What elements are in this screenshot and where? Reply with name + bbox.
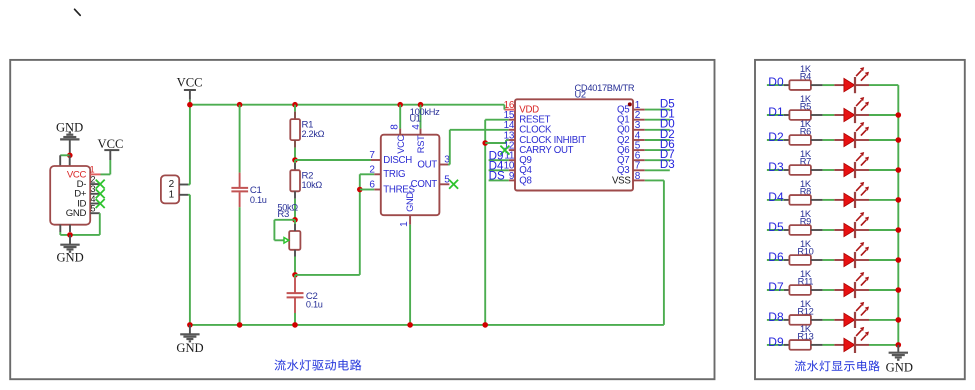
svg-text:D2: D2 [768,130,784,144]
pin 5 stub [90,204,100,214]
wire [294,105,296,119]
pin 7 DISCH stub [371,159,381,161]
wire OUT to CLOCK [448,130,509,165]
net label D5 [767,220,784,234]
pin 1 (VCC) stub [90,165,101,175]
net label D0 (pin 3) [645,118,675,131]
junction dot (USB bottom gnd) [67,232,73,238]
junction dot [896,257,902,263]
junction dot [896,197,902,203]
net label D8 [767,310,784,324]
svg-text:D4: D4 [768,190,784,204]
wire [823,84,835,86]
USB connector J1 [50,166,90,225]
wire R3 wiper loop [274,220,295,243]
wire DISCH net [295,159,371,161]
resistor R13 1K [784,324,823,350]
pin 1 GND stub wire [409,215,411,325]
resistor R9 1K [784,209,823,235]
label 100kHz [410,107,440,117]
junction dot [187,102,193,108]
wire 555 pin4 to rail [420,105,422,135]
wire [823,139,835,141]
net label D9 [767,335,784,349]
title display circuit [795,360,880,371]
svg-text:OUT: OUT [417,159,437,170]
svg-text:VCC: VCC [177,75,203,89]
svg-text:GND: GND [176,341,203,355]
wire [294,257,296,275]
LED D4 row [834,182,869,208]
wire [823,259,835,261]
svg-text:CONT: CONT [411,179,438,190]
svg-text:1: 1 [90,165,95,175]
junction dot [237,322,243,328]
svg-text:4: 4 [411,124,422,130]
junction dot [896,317,902,323]
svg-text:D1: D1 [768,105,784,119]
wire to TRIG/THRES net [295,174,360,275]
junction dot [482,322,488,328]
wire LED common rail [897,85,899,345]
pin 6 THRES stub wire [360,189,381,191]
svg-text:4: 4 [90,194,95,204]
net label D6 [767,250,784,264]
wire [239,207,241,325]
wire [869,169,898,171]
junction dot node DISCH [292,157,298,163]
svg-text:U2: U2 [575,90,586,100]
junction dot [482,140,488,146]
svg-text:GND: GND [66,208,87,219]
resistor R7 1K [784,149,823,175]
resistor R11 1K [784,269,823,295]
net label D7 [767,280,784,294]
wire [869,259,898,261]
ground GND (USB bottom) [56,235,83,265]
junction dot [896,112,902,118]
net label D1 (pin 2) [645,108,675,121]
wire [239,105,241,173]
display circuit frame [755,60,965,379]
svg-text:U1: U1 [410,114,421,124]
net label D3 (pin 7) [645,158,675,171]
capacitor C2 [287,275,323,313]
svg-text:D3: D3 [768,160,784,174]
svg-text:GND: GND [405,192,415,212]
wire pin 5 to gnd [60,213,100,235]
junction dot [418,102,424,108]
junction dot [292,217,298,223]
wire [823,319,835,321]
svg-text:10kΩ: 10kΩ [302,180,323,190]
wire [869,114,898,116]
svg-text:DISCH: DISCH [383,155,412,166]
pin 3 stub no-connect [90,184,105,198]
counter U2 CD4017BM/TR [504,83,645,191]
junction dot [896,227,902,233]
svg-text:3: 3 [90,184,95,194]
resistor R10 1K [784,239,823,265]
svg-text:0.1u: 0.1u [250,195,267,205]
net label DS (pin 9) [489,170,509,183]
junction dot [292,322,298,328]
wire [869,344,898,346]
svg-text:D8: D8 [768,310,784,324]
wire VCC to pin 1 [101,160,111,174]
junction dot [407,322,413,328]
ground GND (main rail) [176,325,203,355]
junction dot [896,167,902,173]
svg-text:GND: GND [56,251,83,265]
junction dot [237,102,243,108]
LED D9 row [834,327,869,353]
wire VCC rail [190,104,505,106]
svg-text:VSS: VSS [612,175,631,186]
LED D7 row [834,272,869,298]
wire [823,114,835,116]
resistor R6 1K [784,119,823,145]
net label D4 (pin 10) [489,160,509,173]
net label D0 [767,75,784,89]
svg-text:8: 8 [390,124,401,130]
junction dot (USB top gnd) [67,153,73,159]
svg-text:R3: R3 [277,209,289,220]
junction dot node THRES [357,187,363,193]
net label D4 [767,190,784,204]
LED D3 row [834,152,869,178]
pin 3 OUT stub [439,164,448,166]
pin 5 CONT no-connect [439,180,458,189]
wire [869,229,898,231]
svg-text:VCC: VCC [98,137,124,151]
net label D3 [767,160,784,174]
wire [869,139,898,141]
wire [294,313,296,325]
svg-text:5: 5 [90,204,95,214]
net label D2 (pin 4) [645,128,675,141]
resistor R5 1K [784,94,823,120]
LED D5 row [834,212,869,238]
net label D1 [767,105,784,119]
LED D8 row [834,302,869,328]
wire [294,140,296,160]
wire [823,169,835,171]
svg-text:D0: D0 [768,75,784,89]
stray backtick mark [75,9,81,15]
pin 4 stub no-connect [90,194,105,208]
wire [823,344,835,346]
pin 2 TRIG stub wire [360,173,381,175]
wire CLOCK INHIBIT net [485,140,509,143]
wire VDD jog from rail [503,105,505,110]
resistor R1 [290,119,324,140]
svg-text:Q8: Q8 [519,175,531,186]
wire [60,155,70,166]
wire RESET net [485,120,509,325]
wire [869,84,898,86]
power VCC (main) [177,75,203,104]
junction dot [397,102,403,108]
net label D7 (pin 6) [645,148,675,161]
pin 12 CARRY OUT no-connect [500,146,509,155]
capacitor C1 [231,173,266,208]
wire [869,289,898,291]
pin 2 stub no-connect [90,175,105,189]
svg-text:2.2kΩ: 2.2kΩ [302,129,325,139]
connector P1 [161,175,188,203]
LED D2 row [834,122,869,148]
power VCC (USB) [98,137,124,160]
LED D1 row [834,97,869,123]
net label D5 (pin 1) [645,98,675,111]
wire [294,160,296,170]
svg-text:D6: D6 [768,250,784,264]
wire [823,229,835,231]
timer U1 [369,114,450,227]
svg-text:D7: D7 [768,280,784,294]
resistor R2 [290,170,322,191]
resistor R4 1K [784,64,823,90]
LED D6 row [834,242,869,268]
svg-text:D3: D3 [660,158,675,171]
wire GND rail [190,324,664,326]
svg-text:1: 1 [169,190,175,201]
wire shell pins to gnd [60,225,70,235]
svg-text:0.1u: 0.1u [306,300,323,310]
junction dot [292,272,298,278]
ground GND (display) [886,345,913,375]
wire [869,319,898,321]
svg-text:VCC: VCC [396,134,406,153]
resistor R12 1K [784,299,823,325]
wire [823,289,835,291]
net label D2 [767,130,784,144]
svg-text:2: 2 [90,175,95,185]
svg-text:GND: GND [886,360,913,374]
svg-text:D5: D5 [768,220,784,234]
ground GND (USB top) [56,121,83,156]
LED D0 row [834,67,869,93]
wire VSS to gnd rail [645,180,664,325]
potentiometer R3 [277,203,300,257]
junction dot [292,102,298,108]
svg-text:RST: RST [416,135,426,153]
wire P1 pin1 to GND rail [188,195,190,325]
wire [823,199,835,201]
svg-text:TRIG: TRIG [383,169,405,180]
wire [294,191,296,220]
svg-text:DS: DS [489,170,505,183]
junction dot [187,322,193,328]
driver circuit frame [10,60,714,379]
junction dot [896,137,902,143]
net label D6 (pin 5) [645,138,675,151]
net label D9 (pin 11) [489,150,509,163]
resistor R8 1K [784,179,823,205]
title driver circuit [274,359,361,370]
wire P1 pin2 to VCC rail [188,105,190,185]
svg-text:1: 1 [399,221,410,227]
junction dot [896,287,902,293]
wire 555 pin8 to rail [399,105,401,135]
wire [869,199,898,201]
junction dot [896,342,902,348]
svg-text:D9: D9 [768,335,784,349]
